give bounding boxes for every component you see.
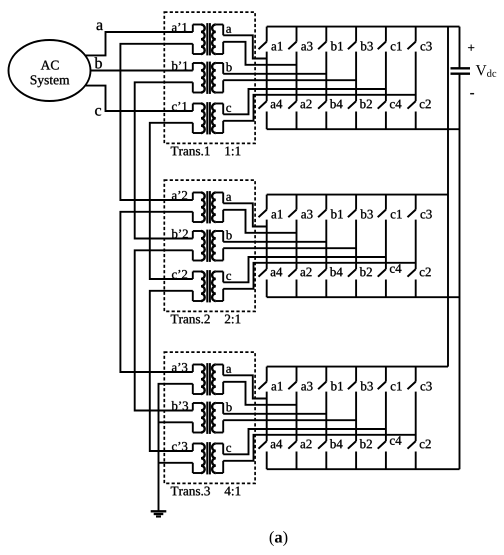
label c4 [390, 436, 402, 445]
label a2 [300, 440, 311, 449]
transformer Trans.1 dashed box [164, 12, 255, 143]
label c4 [390, 264, 402, 273]
label b1 [331, 41, 343, 50]
label a2 [300, 268, 311, 277]
switch c1 (converter 3) [378, 367, 386, 390]
label c (phase c) [95, 108, 101, 116]
wire converter-1 top DC bus [267, 26, 460, 28]
label (a) figure caption [270, 531, 288, 546]
transformer T1 core [207, 102, 210, 134]
wire mid leg column c3/c2 (converter 3) [415, 392, 417, 442]
label turns ratio 1:1 [225, 147, 240, 156]
label b4 [330, 267, 343, 276]
label Trans.1 caption [171, 147, 210, 156]
transformer T2 phase-c secondary winding c [212, 272, 223, 302]
transformer T3 phase-c secondary winding c [212, 444, 223, 474]
label a3 [301, 42, 312, 51]
transformer T1 core [207, 23, 210, 55]
wire T2 secondary c-top to converter-2 column 5 [223, 257, 386, 282]
wire mid leg column c1/c4 (converter 2) [385, 220, 387, 270]
switch a4 (converter 1) [259, 101, 267, 129]
label a'1 (T1 primary terminal) [172, 23, 187, 32]
AC system source [9, 40, 91, 101]
wire mid leg column c3/c2 (converter 1) [415, 52, 417, 102]
label c3 [421, 382, 432, 391]
transformer T3 phase-a secondary winding a [212, 365, 223, 395]
label a1 [271, 382, 282, 391]
wire converter-1 bottom DC bus [267, 128, 460, 130]
capacitor Vdc [451, 68, 471, 73]
wire mid leg column b1/b4 (converter 2) [325, 220, 327, 270]
label c'3 (T3 primary terminal) [172, 442, 187, 451]
switch b3 (converter 2) [348, 195, 356, 218]
wire phase a from AC system to a'1 [85, 32, 193, 55]
switch a3 (converter 2) [288, 195, 296, 218]
wire mid leg column a3/a2 (converter 1) [296, 52, 298, 102]
transformer Trans.3 dashed box [164, 352, 255, 483]
label b3 [360, 41, 372, 50]
switch a4 (converter 2) [259, 269, 267, 297]
wire T1 secondary c-bottom to converter-1 column 6 [223, 95, 416, 121]
wire mid leg column b3/b2 (converter 2) [355, 220, 357, 270]
wire DC rail A (ties top buses of the three converters) [447, 27, 449, 367]
wire b'1 bottom to b'2 top (phase-b series link) [135, 82, 193, 238]
transformer Trans.2 dashed box [164, 180, 255, 311]
switch c4 (converter 3) [378, 441, 386, 469]
label Trans.2 caption [171, 315, 210, 324]
transformer T2 core [207, 270, 210, 302]
switch c3 (converter 3) [408, 367, 416, 390]
switch c1 (converter 1) [378, 27, 386, 50]
label c2 [420, 440, 431, 449]
label a3 [301, 382, 312, 391]
transformer T3 core [207, 442, 210, 474]
switch b2 (converter 1) [348, 101, 356, 129]
transformer T1 phase-a secondary winding a [212, 25, 223, 55]
label + (DC positive) [468, 45, 474, 51]
wire a'3 bottom to neutral [159, 384, 193, 512]
switch b3 (converter 3) [348, 367, 356, 390]
label c2 [420, 100, 431, 109]
transformer T1 core [207, 62, 210, 94]
label b1 [331, 381, 343, 390]
wire converter-3 bottom DC bus [267, 468, 460, 470]
label a4 [271, 100, 283, 109]
label b'1 (T1 primary terminal) [172, 61, 188, 70]
transformer T3 core [207, 363, 210, 395]
wire T3 secondary b-top to converter-3 column 3 [223, 413, 326, 415]
switch a1 (converter 1) [259, 27, 267, 50]
transformer T1 phase-c secondary winding c [212, 104, 223, 134]
wire mid leg column b3/b2 (converter 1) [355, 52, 357, 102]
wire T2 secondary b-top to converter-2 column 3 [223, 241, 326, 243]
wire T3 secondary c-top to converter-3 column 5 [223, 429, 386, 454]
label b'3 (T3 primary terminal) [172, 401, 189, 410]
label a (T3 secondary terminal) [226, 367, 231, 373]
transformer T1 phase-a primary winding a'1 [193, 25, 205, 55]
wire mid leg column b1/b4 (converter 3) [325, 392, 327, 442]
switch b3 (converter 1) [348, 27, 356, 50]
switch c2 (converter 1) [408, 101, 416, 129]
wire c'2 bottom to c'3 top (phase-c series link) [150, 291, 193, 451]
label a1 [271, 210, 282, 219]
transformer T1 phase-b primary winding b'1 [193, 63, 205, 93]
transformer T3 phase-c primary winding c'3 [193, 444, 205, 474]
label a (phase a) [97, 22, 103, 30]
label b3 [360, 381, 372, 390]
wire mid leg column b1/b4 (converter 1) [325, 52, 327, 102]
label b2 [360, 267, 372, 276]
ground [151, 511, 167, 516]
switch c4 (converter 2) [378, 269, 386, 297]
wire mid leg column c3/c2 (converter 2) [415, 220, 417, 270]
wire mid leg column a1/a4 (converter 1) [266, 52, 268, 102]
wire T1 secondary a-top to converter-1 column 1 [223, 35, 267, 58]
wire T1 secondary b-top to converter-1 column 3 [223, 73, 326, 75]
transformer T3 phase-b primary winding b'3 [193, 403, 205, 433]
switch a2 (converter 1) [288, 101, 296, 129]
label c (T3 secondary terminal) [226, 446, 231, 452]
wire mid leg column a1/a4 (converter 2) [266, 220, 268, 270]
label b'2 (T2 primary terminal) [172, 229, 188, 238]
wire T3 secondary a-bottom to converter-3 column 2 [223, 382, 296, 405]
transformer T3 core [207, 402, 210, 434]
switch c1 (converter 2) [378, 195, 386, 218]
label b (T3 secondary terminal) [226, 402, 232, 411]
switch a3 (converter 1) [288, 27, 296, 50]
wire phase c from AC system to c'1 [85, 86, 193, 111]
label a3 [301, 210, 312, 219]
transformer T2 phase-b secondary winding b [212, 231, 223, 261]
label a (T1 secondary terminal) [226, 27, 231, 33]
switch b4 (converter 2) [318, 269, 326, 297]
label b3 [360, 209, 372, 218]
switch b2 (converter 2) [348, 269, 356, 297]
wire mid leg column a3/a2 (converter 2) [296, 220, 298, 270]
wire c'1 bottom to c'2 top (phase-c series link) [150, 123, 193, 279]
label b1 [331, 209, 343, 218]
wire T3 secondary c-bottom to converter-3 column 6 [223, 435, 416, 461]
label a'2 (T2 primary terminal) [172, 191, 187, 200]
label b (phase b) [95, 57, 102, 68]
switch c3 (converter 1) [408, 27, 416, 50]
label c3 [421, 210, 432, 219]
label a'3 (T3 primary terminal) [172, 363, 187, 372]
label turns ratio 4:1 [225, 487, 241, 496]
label a2 [300, 100, 311, 109]
switch a1 (converter 2) [259, 195, 267, 218]
transformer T2 core [207, 230, 210, 262]
transformer T2 core [207, 191, 210, 223]
switch b1 (converter 3) [318, 367, 326, 390]
label c1 [391, 382, 402, 391]
wire a'1 bottom to a'2 top (phase-a series link) [120, 44, 192, 200]
switch a1 (converter 3) [259, 367, 267, 390]
label b4 [330, 439, 343, 448]
switch a2 (converter 2) [288, 269, 296, 297]
transformer T2 phase-a secondary winding a [212, 193, 223, 223]
wire DC rail B upper segment (to capacitor +) [459, 27, 461, 69]
wire mid leg column a3/a2 (converter 3) [296, 392, 298, 442]
wire phase b from AC system to b'1 [90, 70, 193, 72]
wire a'2 bottom to a'3 top (phase-a series link) [120, 212, 192, 372]
transformer T2 phase-b primary winding b'2 [193, 231, 205, 261]
switch b4 (converter 1) [318, 101, 326, 129]
wire converter-3 top DC bus [267, 366, 448, 368]
switch b4 (converter 3) [318, 441, 326, 469]
wire mid leg column b3/b2 (converter 3) [355, 392, 357, 442]
wire T2 secondary c-bottom to converter-2 column 6 [223, 263, 416, 289]
wire T3 secondary b-bottom to converter-3 column 4 [223, 419, 356, 421]
label c'1 (T1 primary terminal) [172, 102, 187, 111]
transformer T3 phase-b secondary winding b [212, 403, 223, 433]
label c (T1 secondary terminal) [226, 106, 231, 112]
wire mid leg column c1/c4 (converter 3) [385, 392, 387, 442]
switch c2 (converter 2) [408, 269, 416, 297]
transformer T1 phase-b secondary winding b [212, 63, 223, 93]
switch a2 (converter 3) [288, 441, 296, 469]
switch b1 (converter 1) [318, 27, 326, 50]
wire mid leg column a1/a4 (converter 3) [266, 392, 268, 442]
label a4 [271, 440, 283, 449]
label a (T2 secondary terminal) [226, 195, 231, 201]
label b2 [360, 99, 372, 108]
transformer T2 phase-c primary winding c'2 [193, 272, 205, 302]
label c1 [391, 42, 402, 51]
wire DC rail B lower segment (capacitor - to bottom buses) [459, 74, 461, 470]
transformer T2 phase-a primary winding a'2 [193, 193, 205, 223]
wire mid leg column c1/c4 (converter 1) [385, 52, 387, 102]
label c2 [420, 268, 431, 277]
wire T2 secondary a-bottom to converter-2 column 2 [223, 210, 296, 233]
label Trans.3 caption [171, 487, 210, 496]
label c (T2 secondary terminal) [226, 274, 231, 280]
switch b1 (converter 2) [318, 195, 326, 218]
wire c'3 bottom to neutral [159, 462, 193, 464]
label b (T1 secondary terminal) [226, 62, 232, 71]
label c1 [391, 210, 402, 219]
wire T1 secondary a-bottom to converter-1 column 2 [223, 42, 296, 65]
wire T2 secondary b-bottom to converter-2 column 4 [223, 247, 356, 249]
label turns ratio 2:1 [225, 315, 240, 324]
label a1 [271, 42, 282, 51]
switch c4 (converter 1) [378, 101, 386, 129]
switch b2 (converter 3) [348, 441, 356, 469]
wire b'2 bottom to b'3 top (phase-b series link) [135, 250, 193, 410]
transformer T1 phase-c primary winding c'1 [193, 104, 205, 134]
label c4 [390, 100, 402, 109]
label c3 [421, 42, 432, 51]
label Vdc [476, 65, 497, 77]
wire T3 secondary a-top to converter-3 column 1 [223, 375, 267, 398]
wire converter-2 top DC bus [267, 194, 448, 196]
switch c3 (converter 2) [408, 195, 416, 218]
label b2 [360, 439, 372, 448]
wire converter-2 bottom DC bus [267, 296, 460, 298]
switch a4 (converter 3) [259, 441, 267, 469]
wire T1 secondary c-top to converter-1 column 5 [223, 89, 386, 114]
transformer T3 phase-a primary winding a'3 [193, 365, 205, 395]
wire T1 secondary b-bottom to converter-1 column 4 [223, 79, 356, 81]
switch c2 (converter 3) [408, 441, 416, 469]
switch a3 (converter 3) [288, 367, 296, 390]
wire b'3 bottom to neutral [159, 421, 193, 423]
label - (DC negative) [470, 93, 474, 94]
label b4 [330, 99, 343, 108]
label b (T2 secondary terminal) [226, 230, 232, 239]
label a4 [271, 268, 283, 277]
wire T2 secondary a-top to converter-2 column 1 [223, 203, 267, 226]
label c'2 (T2 primary terminal) [172, 270, 187, 279]
